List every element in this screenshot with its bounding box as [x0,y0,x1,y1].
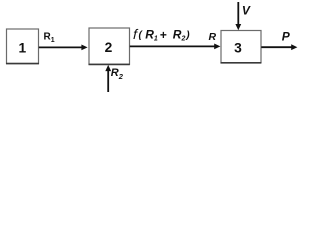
svg-text:+: + [160,28,167,42]
svg-text:P: P [282,30,291,44]
svg-text:2: 2 [105,40,113,55]
svg-text:1: 1 [19,40,27,55]
svg-text:3: 3 [234,40,242,55]
svg-text:): ) [185,30,190,41]
svg-text:R: R [209,31,217,43]
svg-text:V: V [242,4,251,18]
